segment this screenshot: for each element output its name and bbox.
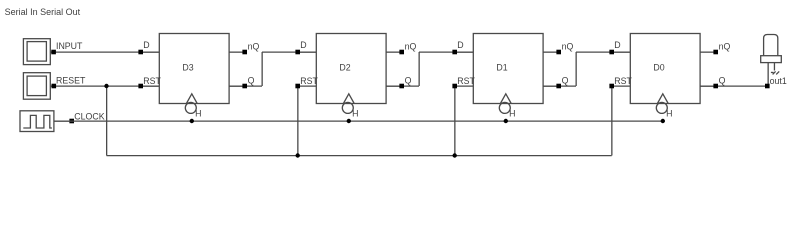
svg-text:Serial In Serial Out: Serial In Serial Out: [5, 7, 81, 17]
pin nQ of D3: [229, 42, 259, 55]
input source RESET (logic input box): [23, 73, 56, 100]
svg-text:H: H: [352, 109, 358, 119]
input source INPUT (logic input box): [23, 39, 56, 65]
svg-text:nQ: nQ: [248, 42, 260, 52]
svg-text:D1: D1: [496, 63, 507, 73]
svg-text:H: H: [509, 109, 515, 119]
label CLOCK: [74, 112, 104, 122]
junction: clock bus at D3 clock pin: [190, 119, 194, 123]
svg-text:RST: RST: [457, 76, 475, 86]
wire: RESET vertical drop: [106, 86, 108, 156]
pin square: RESET output pin: [52, 84, 57, 89]
svg-text:RST: RST: [300, 76, 318, 86]
label out1: [770, 76, 787, 86]
pin D of D3: [138, 40, 159, 54]
flip-flop D2 body: [316, 34, 386, 104]
pin RST of D2: [295, 76, 318, 88]
wire: Q of D1 to D of D0: [543, 52, 630, 86]
svg-text:nQ: nQ: [719, 42, 731, 52]
svg-text:INPUT: INPUT: [56, 41, 83, 51]
label RESET: [56, 76, 86, 86]
pin square: CLOCK output pin: [69, 119, 74, 124]
junction: clock bus at D0 clock pin: [661, 119, 665, 123]
clock pin of D0 (edge triangle, circle, H): [656, 94, 672, 119]
pin RST of D0: [609, 76, 632, 88]
pin nQ of D0: [700, 42, 730, 55]
pin RST of D1: [452, 76, 475, 88]
pin D of D0: [609, 40, 630, 54]
svg-text:nQ: nQ: [562, 42, 574, 52]
pin square: INPUT output pin: [51, 50, 56, 55]
junction: reset bus tap D1: [453, 153, 457, 157]
pin Q of D2: [386, 75, 412, 88]
junction: reset bus tap D2: [296, 153, 300, 157]
pin D of D1: [452, 40, 473, 54]
svg-text:CLOCK: CLOCK: [74, 112, 104, 122]
label INPUT: [56, 41, 83, 51]
clock pin of D2 (edge triangle, circle, H): [342, 94, 358, 119]
wire: reset tap to RST of D1: [454, 86, 456, 156]
flip-flop D3 body: [159, 34, 229, 104]
svg-text:Q: Q: [562, 75, 569, 85]
clock source CLOCK (square-wave generator box): [20, 111, 54, 132]
wire: reset tap to RST of D2: [297, 86, 299, 156]
pin Q of D0: [700, 75, 726, 88]
svg-text:D: D: [457, 40, 463, 50]
LED cathode no-connect marks: [771, 71, 779, 74]
svg-text:D0: D0: [653, 63, 664, 73]
wire: INPUT to D of D3: [56, 51, 159, 53]
wire: RESET to RST of D3: [56, 85, 159, 87]
svg-text:Q: Q: [248, 75, 255, 85]
wire: Q of D0 to out1: [700, 85, 767, 87]
clock pin of D3 (edge triangle, circle, H): [185, 94, 201, 119]
svg-text:out1: out1: [770, 76, 787, 86]
LED out1 body: [761, 35, 782, 87]
svg-text:D: D: [300, 40, 306, 50]
pin Q of D3: [229, 75, 255, 88]
svg-text:Q: Q: [405, 75, 412, 85]
wire: Q of D3 to D of D2: [229, 52, 316, 86]
svg-text:RESET: RESET: [56, 76, 86, 86]
junction: RESET wire / drop: [104, 84, 108, 88]
svg-text:RST: RST: [614, 76, 632, 86]
svg-text:Q: Q: [719, 75, 726, 85]
wire: clock bus: [54, 120, 663, 122]
pin square: out1: [765, 84, 770, 89]
pin Q of D1: [543, 75, 569, 88]
svg-text:RST: RST: [143, 76, 161, 86]
svg-text:H: H: [195, 109, 201, 119]
wire: CLOCK box to clock bus: [54, 120, 74, 122]
svg-text:D: D: [614, 40, 620, 50]
wire: Q of D2 to D of D1: [386, 52, 473, 86]
junction: clock bus at D1 clock pin: [504, 119, 508, 123]
svg-text:H: H: [666, 109, 672, 119]
svg-text:D: D: [143, 40, 149, 50]
svg-text:D3: D3: [182, 63, 193, 73]
wire: reset bottom bus: [107, 155, 612, 157]
pin RST of D3: [138, 76, 161, 88]
clock pin of D1 (edge triangle, circle, H): [499, 94, 515, 119]
wire: reset tap to RST of D0: [611, 86, 613, 156]
pin nQ of D1: [543, 42, 573, 55]
svg-text:nQ: nQ: [405, 42, 417, 52]
svg-text:D2: D2: [339, 63, 350, 73]
pin D of D2: [295, 40, 316, 54]
title: Serial In Serial Out: [5, 7, 81, 17]
junction: clock bus at D2 clock pin: [347, 119, 351, 123]
pin nQ of D2: [386, 42, 416, 55]
flip-flop D1 body: [473, 34, 543, 104]
flip-flop D0 body: [630, 34, 700, 104]
